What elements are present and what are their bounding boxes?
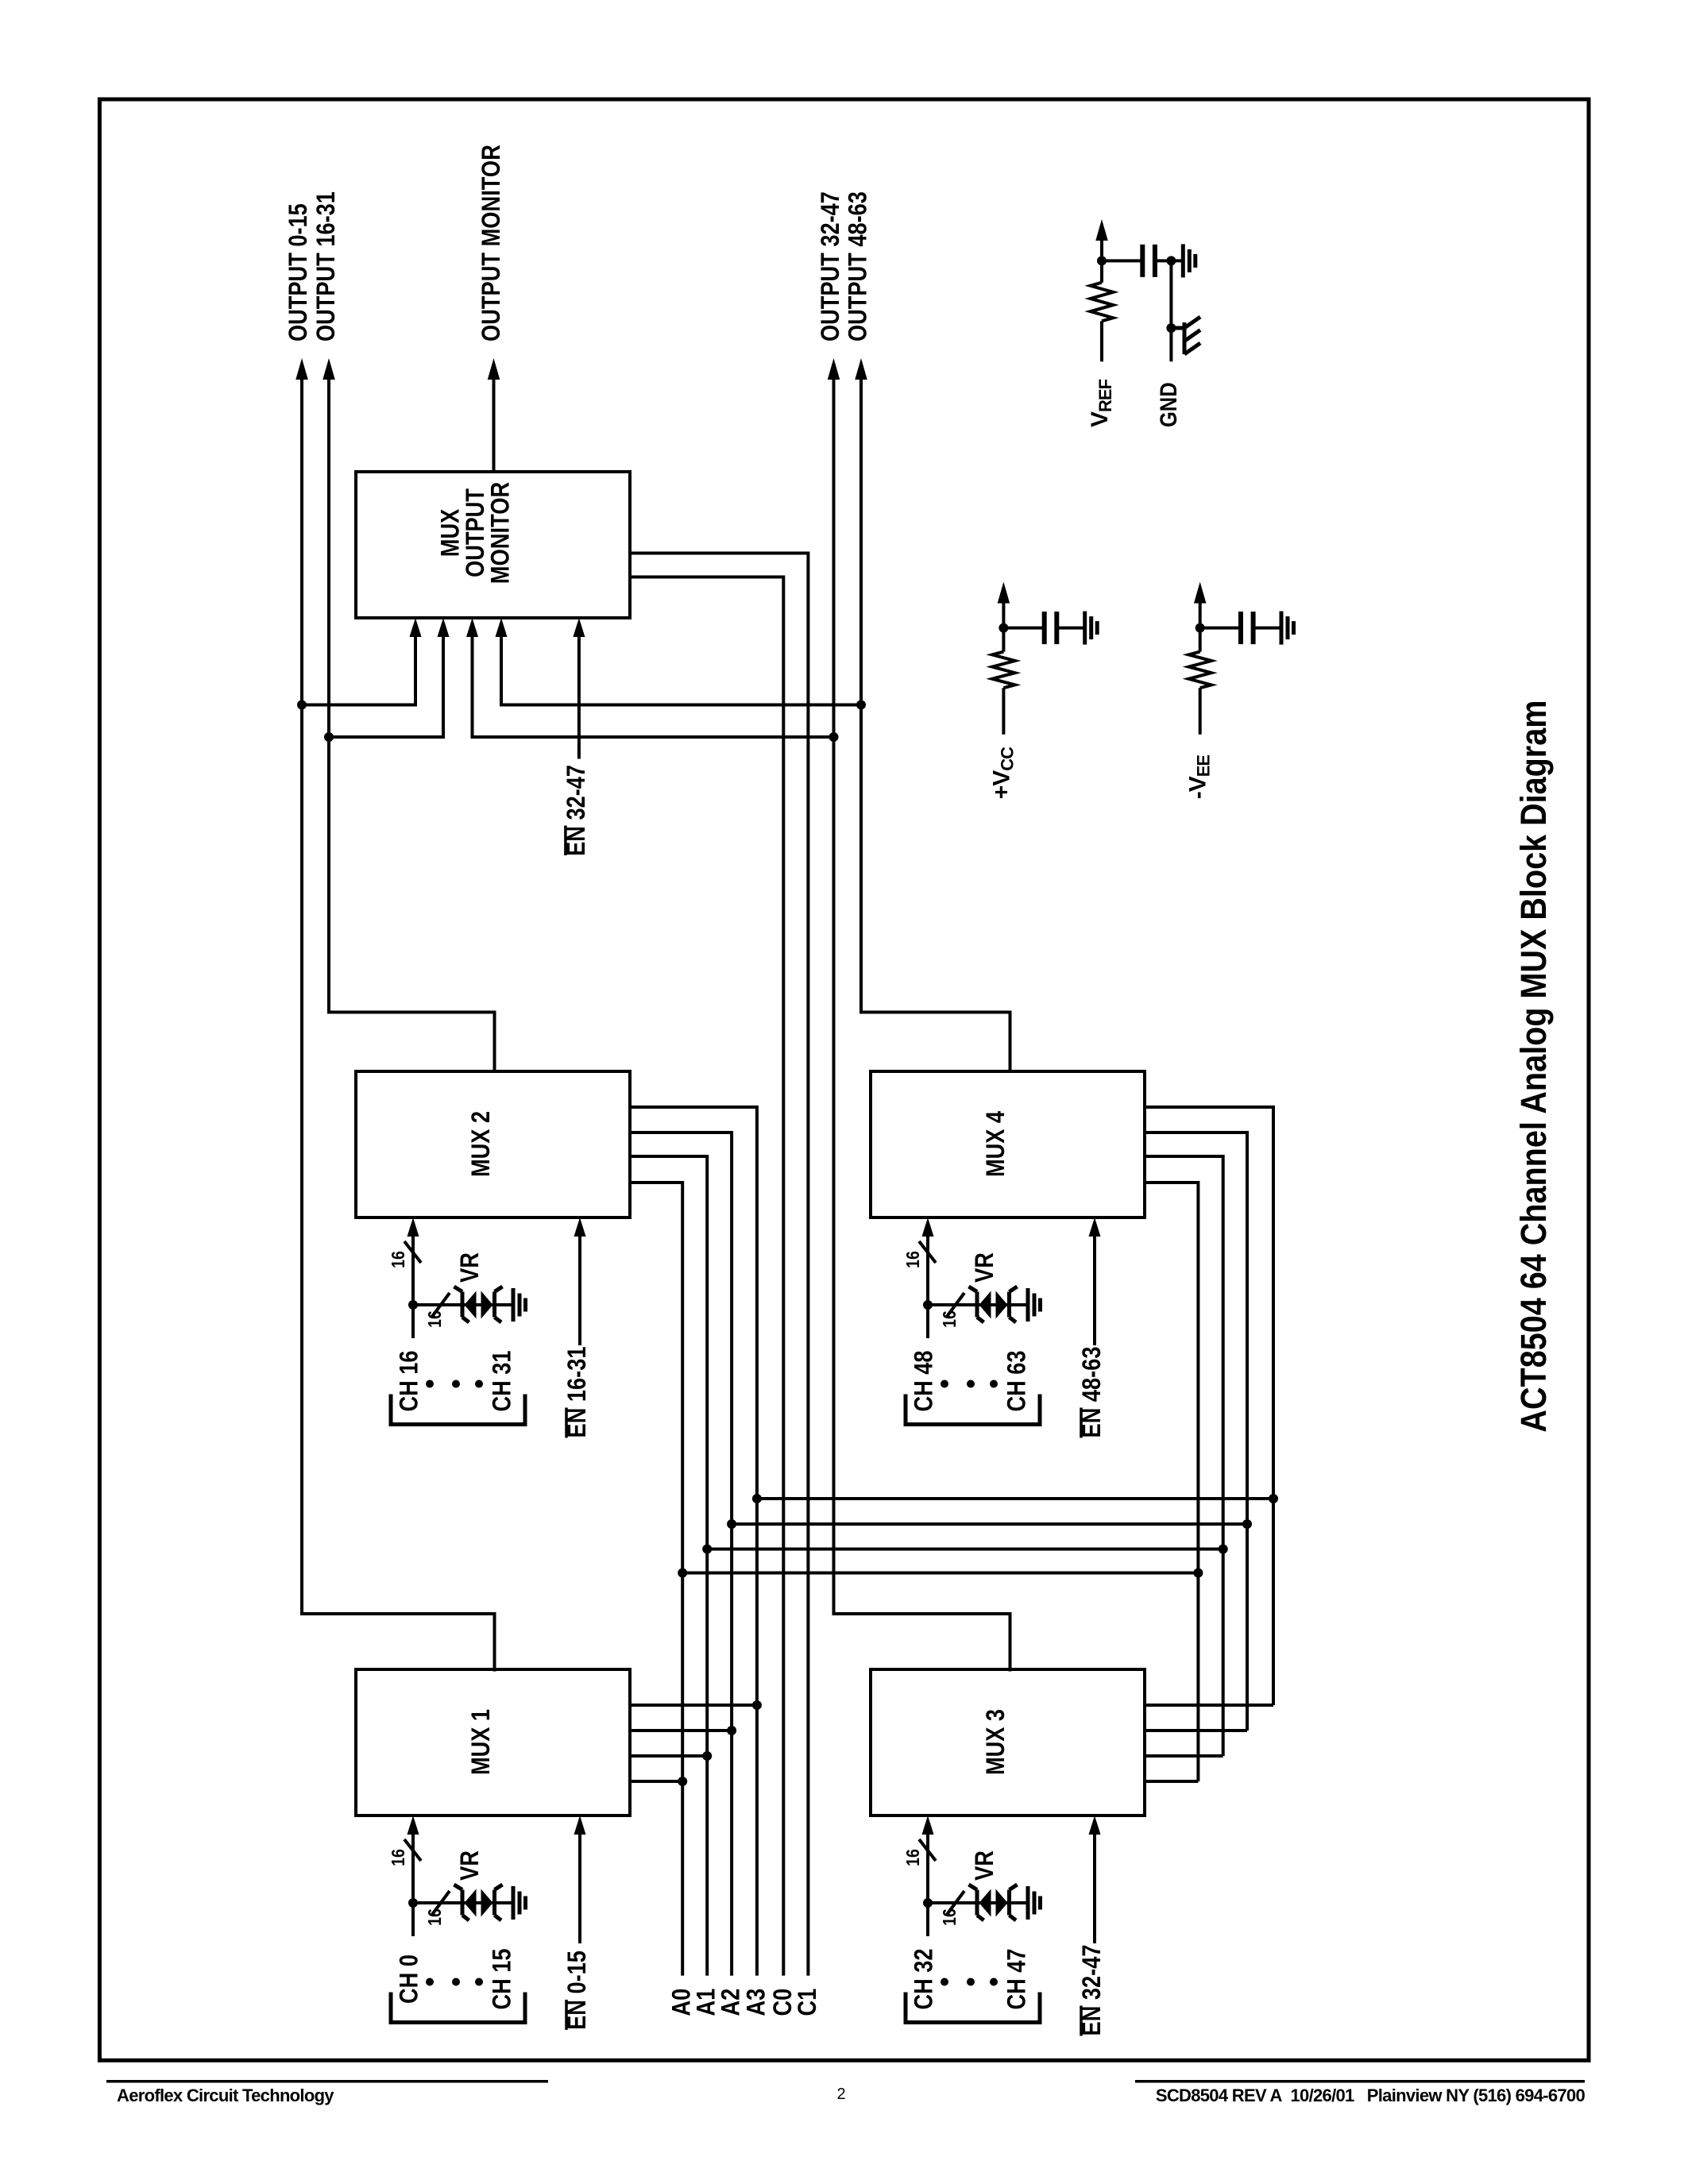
arrow: CH 48..CH 63 bus into MUX 4	[922, 1217, 934, 1237]
junction: bus row on column A0	[678, 1569, 687, 1578]
wire: channel bus CH 0..CH 15	[411, 1828, 415, 1936]
wire: MUX 2 address pin 4 to column A0	[630, 1183, 682, 1976]
arrow: enable input EN 16-31 into MUX 2	[574, 1217, 586, 1237]
arrow: CH 16..CH 31 bus into MUX 2	[408, 1217, 419, 1237]
wire: MUX 3 address pin 1	[1145, 1704, 1273, 1707]
svg-text:MUX 4: MUX 4	[981, 1111, 1010, 1177]
svg-text:CH 31: CH 31	[488, 1350, 516, 1411]
svg-text:OUTPUT 0-15: OUTPUT 0-15	[284, 203, 312, 341]
capacitor: +VCC bypass	[1045, 612, 1057, 644]
svg-text:CH 48: CH 48	[910, 1350, 938, 1411]
TVS diode VR (MUX 3): left diode triangle	[979, 1889, 991, 1917]
resistor: VREF series	[1100, 260, 1103, 282]
arrow: monitor input 1 (from OUTPUT 0-15)	[410, 618, 422, 637]
wire: MUX 1 address pin 1 to column A3	[630, 1704, 757, 1707]
junction: MUX 1 pin 3 on column A1	[702, 1751, 712, 1761]
wire: EN 16-31	[578, 1230, 581, 1345]
junction: VREF node	[1097, 256, 1107, 265]
junction: bus row on column A1	[702, 1545, 712, 1554]
arrow: monitor enable input EN 32-47	[573, 618, 585, 637]
svg-text:OUTPUT 48-63: OUTPUT 48-63	[844, 191, 872, 341]
arrow: VREF supply	[1095, 219, 1108, 241]
block U5: MUX OUTPUT MONITOR	[356, 472, 630, 618]
wire: MUX 2 address pin 1 to column A3	[630, 1107, 757, 1976]
wire: MUX 4 address pin 1 down right column to MUX 3 pin 1	[1145, 1107, 1273, 1705]
bracket grouping CH 32..CH 47	[906, 1993, 1040, 2023]
wire: MUX 3 address pin 2	[1145, 1729, 1247, 1732]
wire: +VCC node	[1002, 597, 1005, 629]
wire: EN 48-63	[1093, 1230, 1096, 1345]
wire: VREF to bypass capacitor	[1102, 259, 1142, 262]
svg-text:ACT8504 64 Channel Analog MUX: ACT8504 64 Channel Analog MUX Block Diag…	[1513, 700, 1554, 1433]
wire: OUTPUT 16-31 net (MUX2 output to top arrow)	[329, 374, 495, 1071]
arrow: enable input EN 32-47 into MUX 3	[1089, 1815, 1101, 1835]
footer rule left	[106, 2080, 548, 2083]
junction: MUX 1 pin 2 on column A2	[727, 1726, 736, 1735]
ground (earth) for VR (MUX 3)	[1028, 1886, 1041, 1920]
svg-text:VR: VR	[455, 1850, 484, 1881]
junction: bus row on right column R1	[1269, 1494, 1278, 1503]
TVS diode VR (MUX 3): right zener bar	[1010, 1885, 1018, 1920]
footer rule right	[1135, 2080, 1585, 2083]
junction: channel bus / VR branch (MUX 1)	[408, 1898, 418, 1908]
wire: OUTPUT 32-47 net (MUX3 output to top arrow)	[834, 374, 1010, 1672]
TVS diode VR (MUX 4): right zener bar	[1010, 1287, 1018, 1322]
svg-text:CH 63: CH 63	[1002, 1350, 1031, 1411]
svg-text:CH 32: CH 32	[910, 1948, 938, 2009]
TVS diode VR (MUX 2): left zener bar	[454, 1287, 469, 1322]
TVS diode VR (MUX 2): right diode triangle	[481, 1291, 493, 1319]
wire: EN 32-47 to monitor	[577, 631, 581, 759]
arrow: OUTPUT 32-47 output	[828, 358, 840, 380]
arrow: monitor input 4 (from OUTPUT 48-63)	[496, 618, 508, 637]
arrow: CH 0..CH 15 bus into MUX 1	[408, 1815, 419, 1835]
drawing frame border	[99, 99, 1589, 2060]
arrow: monitor input 2 (from OUTPUT 16-31)	[438, 618, 450, 637]
wire: OUTPUT 16-31 to monitor input 2	[329, 631, 443, 737]
ground (earth) for VR (MUX 4)	[1028, 1288, 1041, 1322]
svg-text:A2: A2	[717, 1989, 745, 2016]
block: MUX 2	[356, 1071, 630, 1217]
svg-text:MUX 2: MUX 2	[466, 1111, 495, 1177]
TVS diode VR (MUX 4): left zener bar	[969, 1287, 984, 1322]
block: MUX 1	[356, 1669, 630, 1815]
svg-text:MONITOR: MONITOR	[486, 482, 515, 584]
TVS diode VR (MUX 1): right diode triangle	[481, 1889, 493, 1917]
wire: MUX 1 address pin 3 to column A1	[630, 1754, 707, 1758]
svg-text:Aeroflex Circuit Technology: Aeroflex Circuit Technology	[117, 2086, 334, 2105]
wire: -VEE node	[1199, 597, 1202, 629]
svg-text:16: 16	[939, 1310, 960, 1328]
junction: OUTPUT 48-63 / monitor tap	[856, 700, 866, 710]
wire: EN 32-47	[1093, 1828, 1096, 1943]
bracket grouping CH 16..CH 31	[391, 1395, 525, 1425]
ellipsis dots between CH 48 and CH 63	[941, 1380, 948, 1388]
svg-text:VR: VR	[970, 1252, 999, 1283]
wire: MUX 3 address pin 4	[1145, 1780, 1198, 1783]
wire: capacitor to ground (+VCC)	[1056, 627, 1084, 630]
wire: MUX 4 address pin 2 down right column to MUX 3 pin 2	[1145, 1133, 1247, 1731]
TVS diode VR (MUX 2): right zener bar	[495, 1287, 503, 1322]
ground (earth) at -VEE capacitor	[1281, 612, 1294, 645]
junction: bus row on column A3	[752, 1494, 762, 1503]
TVS diode VR (MUX 2): left diode triangle	[465, 1291, 477, 1319]
junction: bus row on right column R3	[1219, 1545, 1228, 1554]
wire: channel bus CH 16..CH 31	[411, 1230, 415, 1338]
wire: address bus row A1 (left column to right column)	[707, 1548, 1223, 1551]
block: MUX 3	[871, 1669, 1145, 1815]
svg-text:CH 0: CH 0	[395, 1954, 423, 2004]
junction: OUTPUT 16-31 / monitor tap	[324, 732, 334, 742]
TVS diode VR (MUX 1): left zener bar	[454, 1885, 469, 1920]
capacitor: -VEE bypass	[1241, 612, 1253, 644]
junction: GND / chassis ground tap	[1166, 323, 1176, 333]
ground (earth) for VR (MUX 1)	[513, 1886, 526, 1920]
TVS diode VR (MUX 3): right diode triangle	[996, 1889, 1008, 1917]
svg-text:2: 2	[836, 2086, 845, 2103]
arrow: OUTPUT 16-31 output	[323, 358, 335, 380]
overline of EN (monitor enable)	[564, 826, 567, 856]
arrow: monitor input 3 (from OUTPUT 32-47)	[466, 618, 478, 637]
junction: OUTPUT 0-15 / monitor tap	[297, 700, 307, 710]
capacitor: VREF bypass	[1142, 245, 1155, 277]
junction: channel bus / VR branch (MUX 3)	[923, 1898, 933, 1908]
bus-width slash (16) on VR branch (MUX 3)	[946, 1891, 964, 1916]
wire: net C0 (monitor to bottom stub)	[630, 577, 783, 1976]
wire: VR protection branch (MUX 2)	[413, 1303, 513, 1306]
junction: channel bus / VR branch (MUX 4)	[923, 1300, 933, 1310]
wire: capacitor to ground (-VEE)	[1253, 627, 1281, 630]
TVS diode VR (MUX 4): right diode triangle	[996, 1291, 1008, 1319]
wire: capacitor to GND node	[1155, 259, 1183, 262]
TVS diode VR (MUX 1): right zener bar	[495, 1885, 503, 1920]
svg-text:OUTPUT 32-47: OUTPUT 32-47	[816, 191, 844, 341]
wire: address bus row A2 (left column to right column)	[732, 1522, 1247, 1526]
junction: bus row on right column R2	[1242, 1519, 1252, 1529]
bus-width slash (16) on VR branch (MUX 4)	[946, 1293, 964, 1318]
ellipsis dots between CH 32 and CH 47	[941, 1978, 948, 1986]
svg-text:MUX 3: MUX 3	[981, 1709, 1010, 1775]
wire: MUX 2 address pin 3 to column A1	[630, 1156, 707, 1976]
svg-text:16: 16	[424, 1310, 445, 1328]
wire: VR protection branch (MUX 4)	[928, 1303, 1028, 1306]
junction: bus row on right column R4	[1193, 1569, 1203, 1578]
wire: MUX 4 address pin 4 down right column to MUX 3 pin 4	[1145, 1183, 1198, 1781]
TVS diode VR (MUX 4): left diode triangle	[979, 1291, 991, 1319]
junction: OUTPUT 32-47 / monitor tap	[829, 732, 839, 742]
bracket grouping CH 0..CH 15	[391, 1993, 525, 2023]
TVS diode VR (MUX 3): left zener bar	[969, 1885, 984, 1920]
wire: OUTPUT 48-63 net (MUX4 output to top arrow)	[861, 374, 1010, 1071]
svg-text:16: 16	[939, 1908, 960, 1926]
ellipsis dots between CH 0 and CH 15	[426, 1978, 434, 1986]
wire: EN 0-15	[578, 1828, 581, 1943]
wire: VREF node	[1100, 235, 1103, 262]
wire: OUTPUT 48-63 to monitor input 4	[501, 631, 861, 705]
resistor: +VCC series	[1002, 628, 1005, 652]
svg-text:OUTPUT MONITOR: OUTPUT MONITOR	[477, 145, 505, 341]
svg-text:16: 16	[902, 1251, 923, 1268]
svg-text:SCD8504 REV A 10/26/01 Plai: SCD8504 REV A 10/26/01 Plainview NY (516…	[1156, 2086, 1586, 2105]
overline of EN (MUX 4)	[1080, 1407, 1083, 1437]
arrow: CH 32..CH 47 bus into MUX 3	[922, 1815, 934, 1835]
overline of EN (MUX 3)	[1080, 2005, 1083, 2035]
resistor: -VEE series	[1199, 628, 1202, 652]
junction: MUX 1 pin 4 on column A0	[678, 1777, 687, 1786]
junction: channel bus / VR branch (MUX 2)	[408, 1300, 418, 1310]
svg-text:GND: GND	[1156, 382, 1182, 427]
wire: MUX 1 address pin 4 to column A0	[630, 1780, 682, 1783]
svg-text:C1: C1	[793, 1989, 821, 2016]
ground (earth) at VREF capacitor	[1183, 244, 1196, 277]
svg-text:16: 16	[902, 1849, 923, 1866]
svg-text:16: 16	[388, 1251, 408, 1268]
svg-text:VR: VR	[970, 1850, 999, 1881]
arrow: enable input EN 0-15 into MUX 1	[574, 1815, 586, 1835]
svg-text:OUTPUT 16-31: OUTPUT 16-31	[311, 191, 340, 341]
ground (earth) at +VCC capacitor	[1085, 612, 1098, 645]
junction: -VEE node	[1196, 623, 1205, 633]
bracket grouping CH 48..CH 63	[906, 1395, 1040, 1425]
junction: GND node at capacitor	[1166, 256, 1176, 265]
arrow: OUTPUT 48-63 output	[855, 358, 867, 380]
ellipsis dots between CH 16 and CH 31	[426, 1380, 434, 1388]
wire: address bus row A0 (left column to right column)	[682, 1572, 1198, 1575]
ground (earth) for VR (MUX 2)	[513, 1288, 526, 1322]
wire: -VEE to bypass capacitor	[1200, 627, 1241, 630]
bus-width slash (16) on MUX 4 channel bus	[919, 1241, 936, 1263]
junction: bus row on column A2	[727, 1519, 736, 1529]
wire: channel bus CH 32..CH 47	[926, 1828, 929, 1936]
svg-text:CH 15: CH 15	[488, 1948, 516, 2009]
svg-text:A3: A3	[741, 1989, 770, 2016]
wire: OUTPUT 0-15 to monitor input 1	[302, 631, 415, 705]
arrow: enable input EN 48-63 into MUX 4	[1089, 1217, 1101, 1237]
arrow: +VCC supply	[998, 582, 1010, 604]
svg-text:VR: VR	[455, 1252, 484, 1283]
wire: MUX 1 address pin 2 to column A2	[630, 1729, 732, 1732]
overline of EN (MUX 2)	[565, 1407, 568, 1437]
wire: VR protection branch (MUX 1)	[413, 1901, 513, 1904]
bus-width slash (16) on MUX 3 channel bus	[919, 1839, 936, 1861]
bus-width slash (16) on VR branch (MUX 1)	[431, 1891, 450, 1916]
arrow: OUTPUT MONITOR output	[488, 358, 500, 380]
wire: OUTPUT 32-47 to monitor input 3	[473, 631, 834, 737]
wire: OUTPUT MONITOR net (monitor block to top arrow)	[492, 374, 496, 472]
bus-width slash (16) on MUX 2 channel bus	[404, 1241, 421, 1263]
wire: MUX 3 address pin 3	[1145, 1754, 1223, 1758]
overline of EN (MUX 1)	[565, 2000, 568, 2030]
wire: OUTPUT 0-15 net (MUX1 output to top arrow)	[302, 374, 495, 1672]
wire: GND net	[1169, 260, 1172, 361]
arrow: OUTPUT 0-15 output	[295, 358, 308, 380]
block: MUX 4	[871, 1071, 1145, 1217]
TVS diode VR (MUX 1): left diode triangle	[465, 1889, 477, 1917]
bus-width slash (16) on VR branch (MUX 2)	[431, 1293, 450, 1318]
svg-text:CH 47: CH 47	[1002, 1948, 1031, 2009]
wire: +VCC to bypass capacitor	[1003, 627, 1044, 630]
svg-text:CH 16: CH 16	[395, 1350, 423, 1411]
wire: MUX 4 address pin 3 down right column to MUX 3 pin 3	[1145, 1156, 1223, 1756]
wire: address bus row A3 (left column to right column)	[757, 1497, 1273, 1500]
chassis ground symbol	[1171, 317, 1200, 354]
svg-text:MUX 1: MUX 1	[466, 1709, 495, 1775]
arrow: -VEE supply	[1194, 582, 1207, 604]
wire: channel bus CH 48..CH 63	[926, 1230, 929, 1338]
wire: VR protection branch (MUX 3)	[928, 1901, 1028, 1904]
junction: +VCC node	[999, 623, 1008, 633]
svg-text:16: 16	[388, 1849, 408, 1866]
wire: net C1 (monitor to bottom stub)	[630, 554, 808, 1976]
svg-text:16: 16	[424, 1908, 445, 1926]
junction: MUX 1 pin 1 on column A3	[752, 1700, 762, 1710]
bus-width slash (16) on MUX 1 channel bus	[404, 1839, 421, 1861]
wire: MUX 2 address pin 2 to column A2	[630, 1133, 732, 1976]
